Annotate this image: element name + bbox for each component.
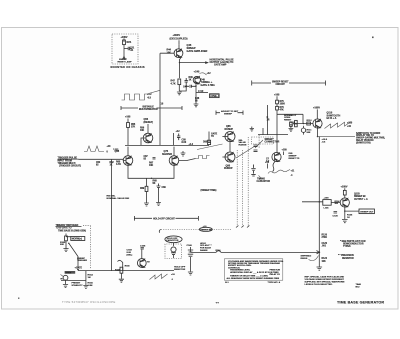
- svg-text:MULTIVIBRATOR: MULTIVIBRATOR: [139, 108, 158, 111]
- svg-text:STAB: STAB: [65, 271, 71, 274]
- svg-text:R164: R164: [216, 249, 222, 252]
- ground: [63, 249, 68, 252]
- svg-text:NOMINAL VALUE 39K: NOMINAL VALUE 39K: [107, 197, 130, 200]
- svg-text:STABILITY: STABILITY: [72, 284, 84, 287]
- wire bottom bus: [78, 270, 174, 272]
- capacitor C162 on wafer: [254, 145, 258, 146]
- transistor Q65 multivib A: [123, 147, 133, 166]
- node junction: [68, 243, 69, 244]
- transistor Q115 sawtooth ef: [313, 119, 322, 128]
- adjust bracket note: [216, 111, 243, 115]
- wire horizontal gate output: [180, 62, 208, 64]
- svg-text:TYPES: TYPES: [343, 246, 351, 248]
- svg-text:47K: 47K: [280, 109, 285, 112]
- resistor R154: [85, 271, 87, 286]
- trigger pulse waveform: [84, 146, 104, 152]
- ground near Q75: [181, 151, 186, 156]
- wire emitter out: [345, 207, 359, 211]
- svg-text:50K: 50K: [307, 132, 311, 134]
- svg-text:* SEE PARTS LIST FOR: * SEE PARTS LIST FOR: [340, 240, 366, 243]
- square-wave waveform (gate): [122, 94, 149, 100]
- svg-text:TYPE 547 / A: TYPE 547 / A: [268, 281, 281, 284]
- svg-text:MOUNTED ON CHASSIS: MOUNTED ON CHASSIS: [111, 66, 145, 69]
- wire Q75 output to right: [179, 159, 196, 161]
- wire down to tunnel diode stage: [179, 63, 181, 79]
- svg-text:RUNUP: RUNUP: [224, 167, 233, 170]
- resistor R150: [65, 236, 68, 241]
- svg-text:+12: +12: [207, 72, 212, 75]
- trigger mode box: [71, 237, 85, 241]
- capacitor C21 in option box: [124, 47, 132, 50]
- svg-text:TD: TD: [211, 136, 214, 138]
- svg-text:+1.2: +1.2: [189, 144, 194, 146]
- transistor Q125 sweep out: [340, 195, 349, 207]
- svg-text:C69: C69: [162, 187, 167, 189]
- svg-text:RESISTOR: RESISTOR: [342, 258, 354, 260]
- svg-text:1K: 1K: [189, 80, 192, 82]
- svg-text:+105V: +105V: [341, 185, 348, 188]
- dashed gang line A: [236, 150, 238, 226]
- svg-text:SWEEP: SWEEP: [224, 114, 232, 116]
- svg-text:CAPACITOR: CAPACITOR: [166, 239, 179, 242]
- node emitter junction: [151, 178, 152, 179]
- wire sawtooth output run: [318, 136, 356, 138]
- wire long vertical from Q45 base: [159, 53, 161, 145]
- svg-text:++: ++: [216, 300, 220, 304]
- wire row linking multivib tops: [125, 128, 209, 146]
- svg-text:R156: R156: [125, 266, 131, 268]
- svg-text:+C45: +C45: [194, 70, 200, 73]
- wire trigger input line: [79, 158, 124, 160]
- output terminal box: [359, 209, 374, 214]
- capacitor C75: [263, 105, 267, 135]
- svg-text:ALL READINGS TAKEN WITH SWEEP: ALL READINGS TAKEN WITH SWEEP RUNNING FR…: [227, 277, 280, 280]
- svg-text:+GATE: +GATE: [75, 267, 83, 270]
- svg-text:TIME/DIV OR DELAY TIME ___ .5: TIME/DIV OR DELAY TIME ___ .5 mSEC: [230, 274, 269, 277]
- tunnel diode D45 (gate TD): [193, 76, 200, 84]
- runup sawtooth waveform: [268, 170, 290, 174]
- dashed gang line D: [258, 135, 260, 148]
- svg-text:BISTABLE: BISTABLE: [143, 105, 155, 108]
- note box: [224, 259, 282, 280]
- capacitor C163 on wafer: [254, 150, 258, 151]
- svg-text:10K: 10K: [149, 165, 154, 167]
- svg-text:RESET LAMP: RESET LAMP: [118, 60, 133, 63]
- svg-text:TP45: TP45: [211, 95, 217, 98]
- svg-text:TIMING SW: TIMING SW: [201, 229, 212, 231]
- svg-text:EF B + A: EF B + A: [327, 117, 337, 120]
- svg-text:(DECOUPLED): (DECOUPLED): [170, 36, 188, 40]
- svg-text:RESET TD: RESET TD: [289, 158, 300, 160]
- svg-text:+105V: +105V: [313, 107, 320, 110]
- wire electrolytic to ground: [190, 257, 192, 272]
- svg-text:ADJUST TO SET: ADJUST TO SET: [221, 110, 239, 113]
- svg-text:10K: 10K: [140, 130, 145, 132]
- wire: [120, 273, 122, 279]
- ground: [156, 203, 161, 206]
- svg-text:27K: 27K: [131, 127, 136, 129]
- svg-text:C166: C166: [187, 245, 193, 247]
- wire down: [344, 211, 346, 219]
- svg-text:TD: TD: [147, 261, 150, 263]
- svg-text:SWEEP OUT: SWEEP OUT: [360, 211, 374, 213]
- registration dot bottom left: [18, 298, 19, 299]
- svg-text:10K: 10K: [167, 51, 172, 54]
- svg-text:L125: L125: [324, 207, 330, 209]
- node junction: [179, 62, 180, 63]
- hold-off circuit bracket: [134, 216, 198, 221]
- ground: [119, 279, 124, 282]
- svg-text:GATE AMPLIFIER: GATE AMPLIFIER: [187, 50, 208, 53]
- sawtooth output waveform: [325, 122, 351, 129]
- second row wire: [61, 279, 86, 281]
- delay line box L125: [323, 200, 331, 206]
- gang line ends: [236, 226, 249, 228]
- timing capacitor C160: [251, 165, 255, 171]
- svg-text:DELAY 1-5: DELAY 1-5: [270, 273, 281, 276]
- svg-text:C126: C126: [333, 216, 339, 218]
- hold off capacitor bubble: [165, 236, 182, 243]
- svg-text:5K: 5K: [153, 183, 156, 185]
- transistor Q45 sweep gate amp: [160, 44, 183, 57]
- hook at left of dashed leader: [159, 230, 161, 233]
- wire long right vertical: [318, 137, 320, 268]
- svg-text:(RESET): (RESET): [144, 121, 154, 124]
- dashed link to gang: [83, 226, 90, 269]
- svg-text:GATE AMP: GATE AMP: [214, 64, 227, 67]
- ground under R47: [177, 92, 182, 95]
- dashed enclosure (neon regulator option box): [112, 34, 138, 64]
- svg-text:4.7K: 4.7K: [116, 163, 121, 166]
- resistor R21 in option box: [123, 40, 126, 45]
- small gate waveform symbol: [196, 156, 210, 159]
- capacitor C69: [157, 184, 161, 191]
- svg-text:TO B GATE TO: TO B GATE TO: [56, 227, 72, 230]
- svg-text:R21: R21: [127, 40, 132, 44]
- capacitor C46: [185, 85, 196, 88]
- junction node: [195, 85, 196, 86]
- svg-text:GATE: GATE: [211, 133, 218, 136]
- svg-text:+12: +12: [176, 130, 181, 133]
- svg-text:CIRCUIT: CIRCUIT: [276, 84, 286, 86]
- capacitor C126: [334, 212, 338, 214]
- potentiometer R152 stability: [63, 275, 68, 280]
- svg-text:GATE 4.7MA: GATE 4.7MA: [201, 84, 215, 87]
- svg-text:SHAPER: SHAPER: [162, 153, 172, 156]
- svg-text:(SAWTOOTH): (SAWTOOTH): [356, 141, 371, 144]
- ground R155: [83, 285, 88, 288]
- crossover hop: [216, 251, 221, 253]
- capacitor C47: [185, 78, 188, 85]
- svg-text:270K: 270K: [322, 237, 328, 239]
- wire R47 to ground: [179, 85, 186, 91]
- svg-text:(SWEEP TIME): (SWEEP TIME): [201, 190, 217, 192]
- potentiometer R111: [301, 128, 305, 132]
- svg-text:+100: +100: [324, 197, 330, 199]
- ground: [144, 203, 149, 206]
- svg-text:22K: 22K: [60, 244, 64, 246]
- svg-text:10K: 10K: [322, 261, 327, 263]
- holdoff sawtooth waveform: [150, 274, 168, 280]
- resistor R76: [276, 106, 279, 110]
- svg-text:1M: 1M: [88, 277, 91, 279]
- wire hook above bus: [118, 260, 123, 270]
- svg-text:RUNUP: RUNUP: [225, 128, 234, 131]
- wire down from emitter node: [146, 178, 148, 186]
- resistor R47: [178, 79, 181, 85]
- ground stub near wafer: [250, 127, 254, 132]
- resistor R112: [307, 122, 311, 125]
- dashed leader to gang: [161, 229, 231, 231]
- svg-text:R56: R56: [140, 128, 145, 130]
- dashed holdoff cap box: [165, 244, 182, 259]
- wire diagonal to runup: [197, 144, 223, 150]
- wire row: [258, 134, 288, 136]
- transistor Q95 runup B: [222, 142, 235, 162]
- timing switch bubble on leader: [199, 227, 212, 231]
- wire holdoff line to sweep cal node: [191, 251, 217, 253]
- svg-text:SWEEP RESET: SWEEP RESET: [272, 81, 289, 83]
- wire: [147, 190, 159, 203]
- switch wafer diagonal: [236, 146, 255, 158]
- dashed connector outline: [252, 137, 274, 144]
- svg-text:RANGE: RANGE: [200, 249, 208, 252]
- ground below Q125: [342, 220, 348, 223]
- ground right vertical: [317, 267, 323, 270]
- svg-text:R156: R156: [115, 269, 121, 271]
- svg-text:TYPE 547/RM547 OSCILLOSCOPE: TYPE 547/RM547 OSCILLOSCOPE: [62, 300, 116, 304]
- svg-text:(SEL): (SEL): [127, 254, 133, 256]
- test point box TP45: [196, 92, 208, 94]
- svg-text:1K: 1K: [347, 217, 350, 219]
- switch wafer diagonal 2: [255, 140, 263, 148]
- wire base row: [295, 123, 313, 125]
- resistor R130: [343, 190, 346, 195]
- resistor R75: [276, 100, 279, 104]
- ground below R78: [289, 126, 294, 131]
- resistor R55: [127, 123, 130, 128]
- svg-text:.001: .001: [322, 246, 327, 248]
- svg-text:4.7K: 4.7K: [171, 82, 176, 85]
- svg-text:+125: +125: [347, 123, 353, 125]
- stability label box: [65, 271, 76, 274]
- resistor R156 on bus: [120, 267, 123, 273]
- transistor Q75 multivib B: [169, 147, 179, 166]
- wire left long vertical: [111, 159, 113, 270]
- svg-text:REGIS: REGIS: [301, 258, 308, 260]
- svg-text:1R: 1R: [267, 120, 270, 122]
- ground: [194, 104, 199, 107]
- resistor R110 stack: [295, 120, 298, 126]
- ground pot: [63, 285, 68, 288]
- svg-text:R46: R46: [189, 76, 194, 79]
- wire collector down: [180, 57, 182, 63]
- node sweep cal junction: [318, 251, 320, 253]
- svg-text:+105V: +105V: [121, 36, 128, 39]
- electrolytic C166: [190, 247, 192, 253]
- svg-text:C 1R: C 1R: [198, 91, 204, 93]
- ground C166: [188, 272, 193, 275]
- svg-text:RESISTOR: RESISTOR: [174, 269, 186, 271]
- svg-text:8-50: 8-50: [182, 142, 187, 144]
- svg-text:+105: +105: [125, 116, 131, 119]
- node junction base: [303, 123, 304, 124]
- transistor Q145 holdoff: [137, 250, 146, 268]
- transistor Q105 reset TD: [272, 135, 281, 162]
- wire emitter junction: [317, 128, 319, 137]
- svg-text:TIME BASE GENERATOR: TIME BASE GENERATOR: [337, 301, 384, 305]
- svg-text:+105: +105: [282, 150, 288, 152]
- node +GATE: [77, 269, 79, 271]
- svg-text:HOLD-OFF CIRCUIT: HOLD-OFF CIRCUIT: [153, 218, 175, 220]
- svg-text:+1.2: +1.2: [147, 94, 152, 96]
- svg-text:TRIGGER: TRIGGER: [77, 260, 87, 262]
- svg-text:R112: R112: [307, 120, 313, 122]
- diode D55 box: [208, 140, 211, 144]
- svg-text:R69: R69: [140, 188, 145, 190]
- wire: [277, 104, 303, 135]
- resistor R69: [145, 186, 148, 191]
- svg-text:LEVELS PLUG SELECTED.: LEVELS PLUG SELECTED.: [305, 284, 333, 286]
- svg-text:150K: 150K: [280, 103, 286, 105]
- capacitor C164 in box: [173, 243, 175, 246]
- timing capacitor label: [259, 176, 261, 180]
- bistable multivibrator bracket: [121, 106, 182, 110]
- wire: [178, 40, 180, 44]
- svg-text:Q65: Q65: [115, 150, 120, 153]
- sweep gate bracket: [252, 81, 326, 86]
- svg-text:NORM(+): NORM(+): [72, 238, 82, 241]
- resistor R78: [290, 122, 293, 126]
- wire diagonal to gate node: [69, 244, 78, 268]
- svg-text:TIME BASE B (SWB GEN): TIME BASE B (SWB GEN): [58, 229, 86, 232]
- wire: [66, 234, 71, 249]
- svg-text:(TRIGGER CIRCUIT): (TRIGGER CIRCUIT): [59, 166, 81, 168]
- emitter coupling wire: [128, 165, 174, 178]
- wire: [123, 45, 125, 57]
- wire box to vertical and to Q125: [302, 201, 340, 204]
- svg-text:1K: 1K: [290, 124, 293, 126]
- svg-text:OUTPUT + A: OUTPUT + A: [354, 198, 368, 201]
- svg-text:RANGE: RANGE: [239, 144, 247, 147]
- dashed gang line B: [242, 150, 244, 226]
- dashed gang line C: [247, 137, 249, 226]
- wire Q105 emitter curve: [273, 162, 276, 172]
- wire pot down: [65, 280, 67, 284]
- wire gate TD feed: [208, 132, 210, 143]
- wire emitter chain down: [195, 84, 197, 105]
- svg-text:D55: D55: [203, 142, 208, 144]
- capacitor C58: [177, 134, 180, 141]
- svg-text:+105: +105: [274, 93, 280, 96]
- registration dot top right: [372, 37, 374, 39]
- node arrow in option box: [123, 57, 125, 59]
- transistor Q85 runup A: [222, 132, 235, 142]
- svg-text:CAPACITOR: CAPACITOR: [257, 180, 271, 183]
